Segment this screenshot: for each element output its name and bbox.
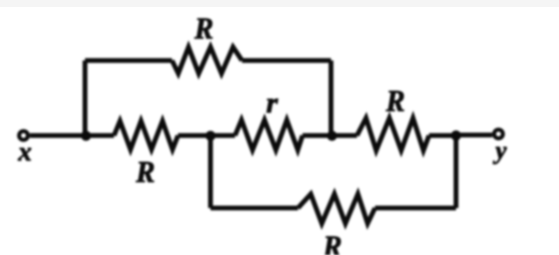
wire bottom branch right (375, 206, 456, 211)
svg-text:R: R (135, 154, 155, 189)
wire node A to resistor R (left middle) (86, 133, 114, 138)
scan header bar (0, 0, 559, 7)
svg-text:R: R (385, 83, 405, 118)
wire node B to resistor R (right) (332, 133, 357, 138)
resistor r (235, 120, 303, 150)
wire node C down to bottom branch (208, 136, 213, 209)
wire resistor R to node D (429, 133, 456, 138)
wire node D to terminal y (456, 133, 492, 138)
wire top branch left (85, 58, 172, 63)
svg-text:y: y (492, 138, 507, 165)
svg-text:x: x (17, 137, 32, 167)
terminal x (19, 131, 28, 140)
wire node A up to top branch (83, 61, 88, 136)
svg-text:R: R (194, 11, 214, 46)
node C (205, 131, 215, 141)
node D (451, 130, 461, 140)
node A (81, 131, 91, 141)
resistor R (right) (357, 118, 429, 151)
resistor R (left middle) (114, 121, 178, 150)
wire bottom branch up to node D (454, 136, 459, 209)
svg-text:R: R (322, 229, 342, 255)
wire resistor R to node C (178, 133, 211, 138)
wire top branch right (242, 58, 331, 63)
svg-text:r: r (266, 87, 278, 120)
wire bottom branch left (211, 206, 299, 211)
wire top branch down to node B (329, 61, 334, 136)
resistor R (bottom) (298, 194, 375, 224)
wire x to node A (30, 133, 86, 138)
wire node C to resistor r (211, 133, 236, 138)
wire resistor r to node B (303, 133, 333, 138)
terminal y (494, 130, 503, 139)
node B (327, 131, 337, 141)
resistor R (top) (172, 47, 242, 74)
